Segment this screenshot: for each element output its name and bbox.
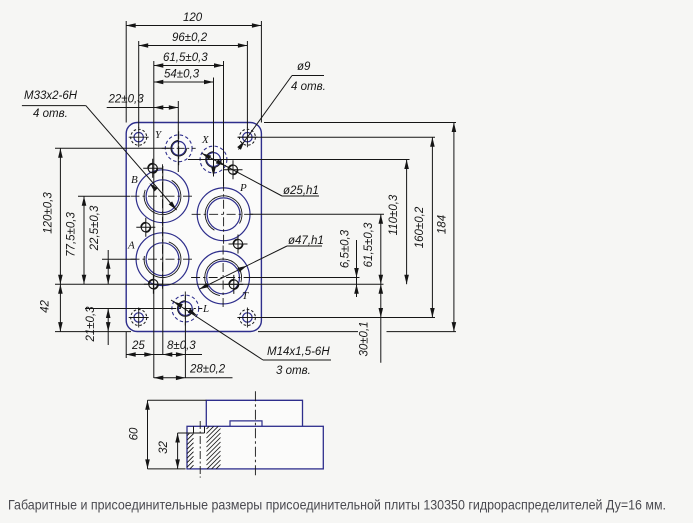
label M33x2-6H 4 otv. with leader to hole B	[22, 90, 178, 212]
extension line Y hole centre, to left dims	[55, 147, 172, 149]
svg-text:28±0,2: 28±0,2	[189, 364, 226, 376]
dimension 28±0,2	[154, 377, 233, 379]
dimension 30±0,1 (right, base row to bottom hole row)	[379, 284, 384, 294]
svg-text:6,5±0,3: 6,5±0,3	[340, 229, 352, 268]
svg-text:M33x2-6H: M33x2-6H	[24, 90, 78, 102]
mounting hole top-right (phi9)	[237, 127, 257, 147]
extension line T hole centre, to right dims	[250, 277, 360, 279]
extension line plate bottom, right side (broken by 30 text)	[258, 331, 358, 333]
dimension 110±0,3 (right)	[406, 160, 408, 285]
dimension 120 (plate width)	[126, 25, 261, 27]
svg-text:22±0,3: 22±0,3	[108, 94, 145, 106]
section view: upper block outline	[206, 400, 302, 426]
svg-text:T: T	[242, 290, 249, 302]
locating mark 1 (upper left)	[143, 159, 162, 178]
dimension 184 (right, plate height)	[453, 123, 455, 332]
svg-text:61,5±0,3: 61,5±0,3	[163, 52, 208, 64]
extension line B/A hole column	[162, 166, 164, 355]
locating mark 4 (mid right)	[229, 235, 248, 254]
extension line plate left edge column (bottom)	[125, 332, 127, 358]
svg-text:3 отв.: 3 отв.	[276, 365, 311, 377]
extension line L hole centre, to left dims	[85, 308, 172, 310]
svg-text:96±0,2: 96±0,2	[172, 32, 208, 44]
extension line A hole centre, to left dims	[102, 258, 136, 260]
dimension 8±0,3	[163, 352, 173, 357]
section view: hole centreline	[199, 421, 201, 478]
extension line base row (through lower marks)	[55, 283, 384, 285]
svg-text:A: A	[127, 240, 135, 252]
svg-text:120±0,3: 120±0,3	[43, 192, 55, 234]
port hole X (M14x1.5, phi25 counterbore)	[197, 143, 231, 177]
svg-text:21±0,3: 21±0,3	[85, 306, 97, 343]
extension line B hole centre, to left dims	[78, 195, 130, 197]
svg-text:32: 32	[158, 441, 170, 454]
extension line marks column (long, top dims to bottom dims)	[153, 61, 155, 378]
extension line Y hole column	[177, 101, 179, 172]
extension line corner-hole row top, to right dims	[238, 136, 435, 138]
svg-text:77,5±0,3: 77,5±0,3	[66, 212, 78, 257]
locating mark 5 (lower left)	[144, 275, 163, 294]
port hole A (M33x2, phi47 counterbore)	[131, 227, 195, 291]
plate outline (front view, rounded rectangle)	[126, 123, 261, 332]
svg-text:22,5±0,3: 22,5±0,3	[89, 205, 101, 251]
locating mark 6 (lower right)	[224, 275, 243, 294]
extension line plate left edge column (top)	[125, 21, 127, 123]
extension line L hole column	[184, 295, 186, 378]
port hole P (M33x2, phi47 counterbore)	[192, 182, 256, 246]
svg-text:Габаритные и присоединительные: Габаритные и присоединительные размеры п…	[8, 498, 666, 513]
svg-text:L: L	[202, 303, 209, 315]
dimension 22,5±0,3 (left)	[107, 250, 109, 284]
dimension 25	[126, 354, 202, 356]
dimension 60 (section height)	[148, 399, 207, 401]
dimension 61,5±0,3 (top)	[154, 65, 224, 67]
extension line P/T hole column	[223, 61, 225, 186]
locating mark 2 (upper right)	[224, 160, 243, 179]
dimension 61,5±0,3 (right, P centre to base row)	[380, 214, 382, 362]
section view: main centreline	[254, 391, 256, 477]
dimension 32 (counterbore depth)	[178, 432, 187, 434]
dimension 96±0,2	[139, 45, 248, 47]
dimension 160±0,2 (right)	[431, 137, 433, 317]
extension line top-right hole column	[246, 41, 248, 128]
svg-text:30±0,1: 30±0,1	[359, 321, 371, 356]
svg-text:M14x1,5-6H: M14x1,5-6H	[267, 346, 330, 358]
svg-text:X: X	[201, 134, 210, 146]
dimension 54±0,3	[154, 81, 214, 83]
svg-text:60: 60	[129, 427, 141, 440]
dimension 120±0,3 (left)	[59, 148, 61, 284]
section view: hatched wall right of threaded hole	[207, 426, 221, 469]
extension line top-left hole column	[138, 41, 140, 128]
label phi25,h1 with leader across hole X	[201, 151, 319, 197]
svg-text:120: 120	[183, 12, 203, 24]
extension line plate top, to 184 dim	[264, 122, 456, 124]
label phi9 4 otv. with leader to top-right mounting hole	[237, 61, 326, 150]
dimension 21±0,3 (left)	[107, 309, 109, 346]
locating mark 3 (mid left)	[136, 218, 155, 237]
section view: lower block outline	[187, 426, 323, 469]
label M14x1,5-6H 3 otv. with leader across hole L	[171, 300, 331, 377]
svg-text:42: 42	[40, 300, 52, 313]
extension line P hole centre, to right dims	[250, 213, 384, 215]
svg-text:P: P	[239, 182, 247, 194]
port hole L (M14x1.5, phi25 counterbore)	[168, 292, 202, 326]
svg-text:61,5±0,3: 61,5±0,3	[363, 222, 375, 267]
svg-text:ø9: ø9	[297, 61, 311, 73]
section view: hatched wall left of threaded hole	[187, 433, 194, 469]
dimension 42 (left)	[59, 284, 61, 331]
svg-text:110±0,3: 110±0,3	[388, 194, 400, 235]
svg-text:B: B	[131, 174, 138, 186]
port hole T (M33x2, phi47 counterbore)	[191, 246, 255, 310]
port hole B (M33x2, phi47 counterbore)	[131, 164, 195, 228]
port hole Y (M14x1.5, phi25 counterbore)	[162, 131, 196, 165]
svg-text:4 отв.: 4 отв.	[291, 81, 326, 93]
dimension 6,5±0,3 (right, T centre to base row)	[356, 240, 358, 297]
extension line plate right edge column (top)	[260, 21, 262, 123]
svg-text:160±0,2: 160±0,2	[414, 206, 426, 248]
svg-text:25: 25	[131, 340, 145, 352]
svg-text:4 отв.: 4 отв.	[33, 108, 68, 120]
svg-text:ø47,h1: ø47,h1	[288, 235, 324, 247]
extension line X hole column	[213, 78, 215, 177]
dimension 22±0,3	[107, 107, 179, 109]
mounting hole bottom-right (phi9)	[237, 308, 257, 328]
label phi47,h1 with leader across hole T	[198, 235, 324, 291]
svg-text:54±0,3: 54±0,3	[164, 69, 200, 81]
section view: counterbore edges (black)	[193, 426, 195, 433]
extension line corner-hole row bottom, to right dims	[238, 317, 435, 319]
mounting hole bottom-left (phi9)	[129, 308, 149, 328]
extension line plate bottom, left side	[55, 331, 131, 333]
svg-text:8±0,3: 8±0,3	[167, 340, 196, 352]
mounting hole top-left (phi9)	[129, 127, 149, 147]
extension line X hole centre, to right dims	[188, 159, 410, 161]
dimension 77,5±0,3 (left)	[83, 196, 85, 284]
svg-text:ø25,h1: ø25,h1	[283, 185, 319, 197]
svg-text:184: 184	[436, 215, 448, 234]
arrow at bottom of X column	[211, 167, 216, 177]
section view: small tab on top of lower block	[230, 421, 262, 426]
